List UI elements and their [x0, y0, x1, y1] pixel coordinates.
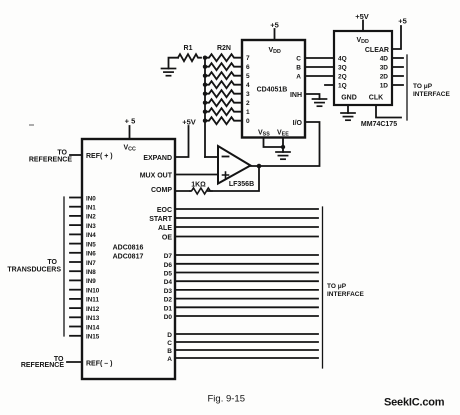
svg-text:IN6: IN6	[86, 251, 96, 258]
wire minus input from ladder	[205, 156, 218, 158]
wire IN3	[70, 224, 82, 226]
wire A out	[175, 357, 318, 359]
op-amp plus sign	[223, 172, 229, 178]
scan artifact dash	[29, 124, 34, 126]
svg-text:IN4: IN4	[86, 232, 96, 239]
svg-text:VDD: VDD	[269, 47, 281, 55]
wire IN2	[70, 215, 82, 217]
wire D6	[175, 263, 318, 265]
svg-text:IN9: IN9	[86, 278, 96, 285]
svg-text:VSS: VSS	[258, 130, 270, 138]
wire IN8	[70, 270, 82, 272]
svg-text:IN5: IN5	[86, 241, 96, 248]
wire 4D out	[392, 57, 403, 59]
svg-text:INTERFACE: INTERFACE	[327, 291, 365, 298]
svg-text:OE: OE	[162, 235, 172, 242]
wire VCC supply	[129, 126, 131, 139]
wire D0	[175, 315, 318, 317]
wire REF(-) stub	[67, 361, 82, 363]
node transducer bracket	[63, 197, 65, 336]
svg-text:C: C	[167, 340, 172, 347]
wire 3D out	[392, 66, 403, 68]
svg-text:D6: D6	[164, 262, 173, 269]
wire C out	[175, 341, 318, 343]
wire C to 4Q	[305, 57, 334, 59]
svg-text:IN8: IN8	[86, 269, 96, 276]
svg-text:0: 0	[246, 118, 250, 125]
wire B out	[175, 349, 318, 351]
resistor R2N-6	[205, 63, 242, 70]
svg-text:2Q: 2Q	[338, 74, 347, 81]
svg-text:TO: TO	[47, 259, 57, 266]
node ladder column with junctions	[204, 58, 206, 157]
wire OE	[175, 236, 318, 238]
resistor R2N-3	[205, 90, 242, 97]
svg-text:CLEAR: CLEAR	[365, 47, 389, 54]
svg-text:D5: D5	[164, 271, 173, 278]
svg-text:INTERFACE: INTERFACE	[413, 91, 451, 98]
svg-text:B: B	[296, 65, 301, 72]
svg-text:TO: TO	[57, 150, 67, 157]
svg-text:ADC0817: ADC0817	[113, 254, 144, 261]
wire 1D out	[392, 84, 403, 86]
svg-text:4Q: 4Q	[338, 56, 347, 63]
svg-text:LF356B: LF356B	[229, 181, 254, 188]
svg-text:3Q: 3Q	[338, 65, 347, 72]
svg-text:EXPAND: EXPAND	[143, 155, 172, 162]
svg-text:ALE: ALE	[158, 225, 172, 232]
IC U4 MM74C175 body	[334, 31, 392, 105]
wire op-amp output to I/O	[251, 122, 320, 166]
svg-text:D4: D4	[164, 279, 173, 286]
svg-text:VDD: VDD	[357, 37, 369, 45]
svg-text:MM74C175: MM74C175	[361, 121, 397, 128]
svg-text:IN7: IN7	[86, 260, 96, 267]
wire D2	[175, 298, 318, 300]
svg-text:+5V: +5V	[355, 12, 369, 21]
wire CLK	[376, 105, 401, 118]
svg-text:+5: +5	[270, 21, 279, 30]
svg-text:IN13: IN13	[86, 315, 100, 322]
svg-text:5: 5	[246, 73, 250, 80]
wire feedback from output	[208, 166, 259, 191]
wire IN0	[70, 197, 82, 199]
svg-text:3: 3	[246, 91, 250, 98]
svg-text:IN15: IN15	[86, 334, 100, 341]
svg-text:INH: INH	[290, 92, 302, 99]
IC U1 ADC0816/ADC0817 body	[82, 139, 175, 379]
svg-text:EOC: EOC	[157, 207, 172, 214]
svg-text:D7: D7	[164, 253, 173, 260]
svg-text:IN2: IN2	[86, 214, 96, 221]
svg-text:CD4051B: CD4051B	[257, 87, 288, 94]
wire 2D out	[392, 75, 403, 77]
wire IN9	[70, 279, 82, 281]
svg-text:2D: 2D	[380, 74, 389, 81]
ground G4 (MM74C175)	[341, 113, 355, 120]
wire IN4	[70, 233, 82, 235]
wire D7	[175, 254, 318, 256]
wire D1	[175, 306, 318, 308]
wire EXPAND to +5V	[175, 126, 189, 157]
svg-text:COMP: COMP	[151, 187, 172, 194]
resistor R3 1Kohm feedback	[190, 188, 212, 194]
svg-text:MUX OUT: MUX OUT	[140, 173, 173, 180]
wire 1Q stub	[325, 84, 334, 86]
wire B to 3Q	[305, 66, 334, 68]
wire ALE	[175, 226, 318, 228]
svg-text:IN10: IN10	[86, 288, 100, 295]
wire D4	[175, 280, 318, 282]
svg-text:IN0: IN0	[86, 195, 96, 202]
svg-text:REFERENCE: REFERENCE	[29, 157, 73, 164]
resistor R1	[178, 54, 201, 61]
svg-text:D2: D2	[164, 297, 173, 304]
resistor R2N-2	[205, 99, 242, 106]
svg-text:D1: D1	[164, 305, 173, 312]
svg-text:A: A	[167, 356, 172, 363]
wire A to 2Q	[305, 75, 334, 77]
svg-text:2: 2	[246, 100, 250, 107]
wire IN12	[70, 307, 82, 309]
svg-text:IN14: IN14	[86, 324, 100, 331]
svg-text:1D: 1D	[380, 83, 389, 90]
wire D3	[175, 289, 318, 291]
wire VDD supply CD4051B	[274, 29, 276, 40]
svg-text:VCC: VCC	[124, 145, 136, 153]
wire VDD supply MM74C175	[362, 21, 364, 32]
wire START	[175, 217, 318, 219]
svg-text:7: 7	[246, 55, 250, 62]
svg-text:VEE: VEE	[277, 130, 289, 138]
svg-text:A: A	[296, 74, 301, 81]
svg-text:4D: 4D	[380, 56, 389, 63]
svg-text:R2N: R2N	[217, 45, 231, 52]
node uP interface bracket upper	[406, 55, 408, 120]
wire D	[175, 333, 318, 335]
wire CLEAR to +5	[392, 26, 401, 49]
resistor R2N-4	[205, 81, 242, 88]
svg-text:I/O: I/O	[293, 120, 303, 127]
svg-text:IN11: IN11	[86, 297, 99, 304]
svg-text:ADC0816: ADC0816	[113, 245, 144, 252]
wire IN10	[70, 289, 82, 291]
svg-text:3D: 3D	[380, 65, 389, 72]
svg-text:+ 5: + 5	[125, 117, 136, 126]
ground G2 (INH)	[313, 99, 327, 106]
svg-text:IN3: IN3	[86, 223, 96, 230]
svg-text:1: 1	[246, 109, 250, 116]
wire GND stub	[347, 105, 349, 113]
svg-text:START: START	[149, 216, 173, 223]
svg-text:REF( – ): REF( – )	[86, 361, 112, 368]
resistor R2N-5	[205, 72, 242, 79]
wire COMP lead	[175, 190, 190, 192]
svg-text:4: 4	[246, 82, 250, 89]
svg-text:CLK: CLK	[369, 95, 383, 102]
svg-text:IN12: IN12	[86, 306, 100, 313]
wire IN14	[70, 326, 82, 328]
IC U3 CD4051B body	[242, 40, 305, 138]
svg-text:TRANSDUCERS: TRANSDUCERS	[7, 267, 61, 274]
wire IN7	[70, 261, 82, 263]
svg-text:R1: R1	[184, 45, 193, 52]
node VEE junction	[281, 145, 285, 149]
ground G3 (VSS/VEE)	[276, 152, 290, 159]
node uP interface bracket lower	[322, 207, 324, 368]
wire D5	[175, 272, 318, 274]
svg-text:D3: D3	[164, 288, 173, 295]
wire INH to ground	[305, 94, 320, 99]
svg-text:GND: GND	[341, 95, 357, 102]
wire IN13	[70, 316, 82, 318]
svg-text:1KΩ: 1KΩ	[191, 182, 206, 189]
svg-text:C: C	[296, 56, 301, 63]
svg-text:D: D	[167, 332, 172, 339]
wire IN6	[70, 252, 82, 254]
svg-text:TO μP: TO μP	[413, 83, 433, 90]
svg-text:TO μP: TO μP	[327, 283, 347, 290]
op-amp U2 LF356B	[218, 146, 251, 184]
resistor R2N-7	[205, 54, 242, 61]
wire IN11	[70, 298, 82, 300]
node output junction	[257, 164, 262, 169]
wire MUX OUT to op-amp + input	[175, 174, 218, 176]
resistor R2N-0	[205, 117, 242, 124]
resistor R2N-1	[205, 108, 242, 115]
svg-text:REF( + ): REF( + )	[86, 153, 113, 160]
svg-text:B: B	[167, 348, 172, 355]
ground G1 (R1)	[169, 58, 179, 69]
svg-text:+5V: +5V	[182, 118, 196, 127]
svg-text:Fig. 9-15: Fig. 9-15	[208, 394, 246, 405]
svg-text:1Q: 1Q	[338, 83, 347, 90]
svg-text:IN1: IN1	[86, 205, 96, 212]
op-amp minus sign	[223, 156, 229, 158]
wire IN15	[70, 335, 82, 337]
wire EOC	[175, 208, 318, 210]
wire REF(+) stub	[70, 154, 82, 156]
svg-text:D0: D0	[164, 314, 173, 321]
svg-text:SeekIC.com: SeekIC.com	[384, 397, 445, 409]
wire IN5	[70, 243, 82, 245]
svg-text:+5: +5	[398, 17, 407, 26]
svg-text:REFERENCE: REFERENCE	[21, 362, 65, 369]
wire IN1	[70, 206, 82, 208]
wire VSS VEE tie	[264, 138, 284, 153]
svg-text:6: 6	[246, 64, 250, 71]
